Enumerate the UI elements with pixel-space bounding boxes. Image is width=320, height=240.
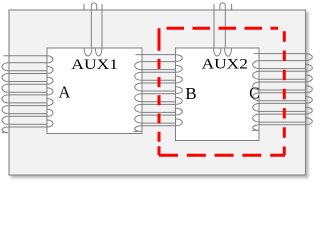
winding A (left limb coil) <box>2 56 53 133</box>
transformer core <box>9 10 306 175</box>
winding B (center limb coil) <box>134 55 183 132</box>
svg-text:C: C <box>249 84 259 103</box>
highlight box around AUX2 (red dashed) <box>159 28 285 155</box>
winding C (right limb coil) <box>252 54 312 131</box>
top winding over AUX1 <box>84 3 102 56</box>
svg-text:AUX1: AUX1 <box>71 57 118 73</box>
highlight top edge <box>159 27 278 30</box>
svg-text:B: B <box>185 84 196 103</box>
window AUX1 <box>47 48 142 134</box>
highlight bottom edge <box>159 154 285 157</box>
top winding over AUX2 <box>214 3 232 56</box>
svg-text:A: A <box>59 82 71 101</box>
window AUX2 <box>176 48 260 141</box>
svg-text:AUX2: AUX2 <box>202 56 248 72</box>
highlight right edge <box>283 28 286 155</box>
highlight left edge <box>158 28 161 155</box>
